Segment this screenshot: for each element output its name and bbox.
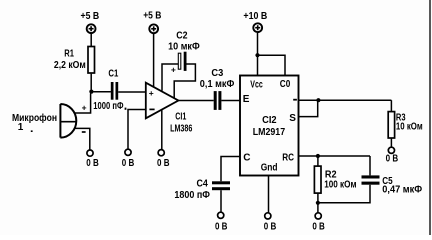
svg-text:0,1 мкФ: 0,1 мкФ — [200, 79, 235, 90]
svg-text:+10 В: +10 В — [243, 11, 267, 22]
capacitor C5 — [362, 175, 423, 195]
wire S feedback — [299, 100, 318, 116]
resistor R2 — [314, 166, 356, 193]
wire C0 lead — [258, 55, 286, 75]
wire — [221, 100, 240, 102]
svg-text:C2: C2 — [176, 31, 188, 42]
wire — [153, 34, 155, 88]
wire Vcc lead — [257, 32, 259, 75]
svg-text:0 В: 0 В — [157, 158, 170, 169]
resistor R3 — [388, 112, 422, 138]
svg-text:+5 В: +5 В — [81, 11, 100, 22]
microphone 1 — [12, 104, 77, 138]
mic plus lead wire — [74, 94, 91, 114]
capacitor C4 — [174, 179, 230, 201]
wire — [90, 74, 92, 92]
+5V supply 2 — [143, 11, 161, 34]
capacitor C1 — [93, 69, 126, 112]
wire — [220, 190, 222, 212]
svg-text:0 В: 0 В — [386, 154, 399, 165]
svg-text:0 В: 0 В — [264, 222, 277, 233]
wire — [118, 91, 146, 93]
node R2 bottom junction — [316, 201, 320, 205]
ground terminal mic — [86, 150, 99, 169]
wire C2 right lead — [174, 64, 195, 98]
svg-text:0 В: 0 В — [215, 222, 228, 233]
mic minus lead wire — [74, 128, 90, 150]
node supply junction — [255, 53, 259, 57]
svg-text:+: + — [82, 102, 87, 112]
svg-text:C: C — [243, 153, 250, 164]
wire — [317, 203, 319, 213]
svg-text:10 мкФ: 10 мкФ — [168, 41, 200, 52]
svg-text:LM386: LM386 — [170, 123, 193, 134]
wire — [390, 100, 392, 111]
svg-text:2,2 кОм: 2,2 кОм — [54, 60, 86, 71]
svg-text:Vcc: Vcc — [250, 79, 263, 90]
svg-text:0 В: 0 В — [122, 158, 135, 169]
svg-text:0,47 мкФ: 0,47 мкФ — [382, 185, 422, 196]
ground terminal Gnd — [264, 213, 277, 233]
wire — [317, 156, 319, 166]
wire op-amp ground pin — [161, 109, 163, 149]
node RC junction — [316, 154, 320, 158]
svg-text:CI1: CI1 — [175, 111, 186, 122]
ground terminal op-amp — [157, 150, 170, 170]
svg-text:C3: C3 — [211, 68, 223, 79]
svg-text:+: + — [171, 65, 176, 75]
wire RC output — [299, 155, 371, 157]
svg-text:R1: R1 — [64, 48, 74, 59]
svg-text:E: E — [243, 94, 250, 105]
resistor R1 — [54, 47, 95, 74]
+10V supply — [243, 11, 267, 32]
node input junction — [89, 90, 93, 94]
IC CI2 LM2917 — [240, 76, 299, 176]
svg-text:RC: RC — [282, 153, 294, 164]
svg-text:1800 пФ: 1800 пФ — [174, 190, 210, 201]
svg-text:100 кОм: 100 кОм — [324, 179, 356, 190]
svg-text:0 В: 0 В — [86, 158, 99, 169]
svg-text:10 кОм: 10 кОм — [396, 121, 423, 132]
wire — [90, 33, 92, 46]
wire op-amp output — [178, 100, 213, 102]
svg-text:0 В: 0 В — [312, 222, 325, 233]
wire — [91, 91, 111, 93]
ground terminal op-amp inverting — [122, 149, 135, 169]
wire — [317, 193, 319, 203]
wire C5 bottom lead — [318, 185, 370, 203]
svg-text:+5 В: +5 В — [143, 11, 161, 22]
ground terminal C4 — [215, 212, 228, 232]
wire C pin lead — [221, 157, 240, 182]
capacitor C3 — [200, 68, 235, 110]
wire C5 top lead — [369, 156, 371, 175]
node minus junction — [316, 98, 320, 102]
svg-text:+: + — [149, 88, 154, 98]
svg-text:S: S — [289, 113, 296, 124]
wire — [390, 138, 392, 147]
svg-text:C4: C4 — [197, 179, 209, 190]
svg-text:LM2917: LM2917 — [253, 127, 286, 138]
wire C2 left lead — [162, 64, 178, 91]
svg-text:1000 пФ: 1000 пФ — [93, 101, 124, 112]
wire minus output — [299, 99, 392, 101]
wire Gnd pin lead — [268, 176, 270, 213]
+5V supply 1 — [81, 11, 100, 33]
ground terminal R2 — [312, 213, 325, 233]
svg-text:1: 1 — [18, 122, 24, 133]
wire inverting input to ground — [128, 110, 146, 150]
svg-text:CI2: CI2 — [262, 115, 277, 126]
svg-text:Gnd: Gnd — [261, 163, 278, 174]
ground terminal R3 — [386, 147, 399, 164]
op-amp CI1 LM386 — [146, 83, 193, 135]
svg-text:C0: C0 — [280, 79, 291, 90]
capacitor C2 — [168, 31, 200, 75]
svg-text:C1: C1 — [108, 69, 118, 80]
